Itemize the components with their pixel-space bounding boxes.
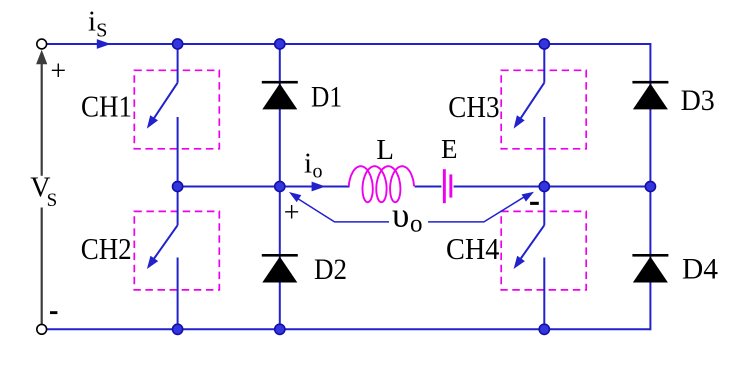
source rail wire lower (black) — [41, 208, 43, 325]
chopper CH3 dashed enclosure — [501, 70, 586, 149]
svg-text:o: o — [410, 210, 423, 237]
label - (source negative) — [50, 311, 57, 314]
diode D3 cathode bar — [632, 81, 668, 84]
svg-text:D4: D4 — [682, 253, 718, 286]
svg-text:CH3: CH3 — [448, 90, 499, 124]
svg-text:L: L — [376, 134, 394, 166]
chopper CH2 dashed enclosure — [134, 211, 219, 290]
v_o pointer right (to - node) — [428, 195, 527, 222]
svg-text:i: i — [88, 6, 96, 38]
wire: load segment L to E — [415, 186, 442, 188]
chopper CH2 blade arrow — [154, 225, 178, 258]
svg-text:S: S — [47, 190, 58, 211]
svg-text:υ: υ — [392, 196, 409, 235]
chopper CH4 bottom stub wire — [543, 258, 545, 330]
EMF source E long plate — [443, 169, 446, 203]
diode D1 cathode bar — [262, 81, 298, 84]
diode D2 — [262, 257, 297, 283]
wire: top supply bus — [47, 43, 651, 45]
junction node mid-CH legs — [173, 181, 183, 191]
chopper CH2 top lead wire — [177, 187, 179, 226]
svg-text:E: E — [441, 134, 458, 164]
label - (load negative) — [530, 202, 539, 205]
wire: load segment E to node B — [454, 186, 545, 188]
junction node bottom-CH2 — [173, 324, 183, 334]
terminal: negative (open circle) — [37, 324, 47, 334]
junction node mid-right leg — [645, 181, 655, 191]
chopper CH3 bottom stub wire — [543, 117, 545, 187]
source current direction arrow (up) — [36, 50, 47, 65]
svg-text:D1: D1 — [311, 81, 342, 114]
source rail wire upper (black) — [41, 55, 43, 176]
junction node B (load -) — [539, 181, 549, 191]
chopper CH1 dashed enclosure — [134, 70, 219, 149]
chopper CH1 top lead wire — [177, 44, 179, 83]
svg-text:+: + — [284, 198, 300, 229]
chopper CH1 bottom stub wire — [177, 117, 179, 187]
chopper CH2 bottom stub wire — [177, 258, 179, 330]
v_o pointer left (to + node) — [296, 198, 389, 222]
EMF source E short plate — [449, 174, 452, 197]
svg-text:i: i — [304, 147, 312, 179]
chopper CH1 blade arrow — [154, 83, 178, 118]
terminal: positive (open circle) — [37, 39, 47, 49]
diode D4 cathode bar — [632, 254, 668, 257]
wire: right leg (D3/D4 branch) — [649, 43, 651, 330]
junction node bottom-CH4 — [539, 324, 549, 334]
svg-text:S: S — [96, 20, 107, 42]
junction node bottom-D2 — [275, 324, 285, 334]
svg-text:CH1: CH1 — [81, 90, 132, 124]
svg-text:+: + — [50, 56, 66, 87]
diode D3 — [633, 84, 668, 110]
current arrow i_S — [97, 39, 111, 49]
chopper CH4 dashed enclosure — [501, 211, 586, 290]
diode D2 cathode bar — [262, 254, 298, 257]
svg-text:CH4: CH4 — [446, 232, 499, 266]
svg-text:D2: D2 — [314, 253, 347, 286]
inductor L coil — [349, 166, 414, 202]
svg-text:CH2: CH2 — [81, 232, 132, 266]
junction node top-CH3 — [539, 39, 549, 49]
diode D4 — [633, 257, 668, 283]
chopper CH4 blade arrow — [521, 225, 545, 258]
junction node top-D1 — [275, 39, 285, 49]
chopper CH3 blade arrow — [521, 83, 545, 118]
svg-text:D3: D3 — [681, 84, 715, 117]
chopper CH3 top lead wire — [543, 44, 545, 83]
wire: bottom return bus — [47, 328, 651, 330]
wire: middle rail left segment (node A to load) — [178, 186, 350, 188]
diode D1 — [262, 84, 297, 110]
current arrow i_o — [312, 182, 326, 192]
junction node A (load +) — [275, 181, 285, 191]
chopper CH4 top lead wire — [543, 187, 545, 226]
wire: D1/D2 leg vertical — [279, 44, 281, 329]
svg-text:o: o — [313, 161, 323, 183]
junction node top-CH1 — [173, 39, 183, 49]
wire: middle rail right segment (node B to right leg) — [544, 186, 650, 188]
